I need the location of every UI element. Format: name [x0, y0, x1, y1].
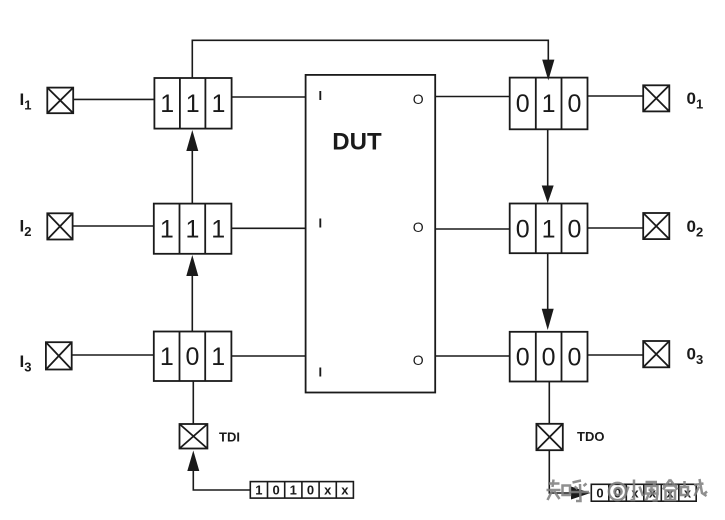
svg-text:1: 1 — [290, 483, 297, 498]
pad I1 — [47, 88, 73, 114]
register cell 111 (row 1 input) — [154, 78, 231, 129]
svg-text:x: x — [324, 483, 332, 498]
svg-text:0: 0 — [516, 344, 530, 372]
pad O2 — [643, 213, 669, 239]
shift arrow register2 to register1 (left column) — [186, 130, 198, 204]
svg-text:1: 1 — [160, 90, 174, 118]
svg-text:0: 0 — [568, 216, 582, 244]
svg-text:1: 1 — [212, 90, 226, 118]
svg-text:TDI: TDI — [219, 430, 240, 445]
svg-text:x: x — [631, 486, 639, 501]
svg-text:O: O — [413, 352, 424, 368]
wm char hu — [570, 481, 589, 502]
wire pad I3 to register — [72, 354, 154, 356]
pad TDO — [536, 424, 562, 450]
pad O1 — [643, 85, 669, 111]
arrow into TDI from scan-in wire — [187, 451, 199, 491]
svg-text:1: 1 — [160, 343, 174, 371]
svg-text:I: I — [319, 216, 323, 231]
pad O3 — [643, 341, 669, 367]
wm char at — [609, 483, 626, 500]
svg-text:1: 1 — [542, 90, 556, 118]
wire pad I2 to register — [73, 225, 154, 227]
register cell 101 (row 3 input) — [154, 332, 232, 382]
wm char xiao — [625, 480, 643, 501]
shift arrow register1 to register2 (right column) — [542, 129, 554, 203]
svg-text:1: 1 — [160, 216, 174, 244]
watermark zhihu (drawn strokes, no CJK font) — [547, 479, 708, 501]
shift arrow register2 to register3 (right column) — [542, 253, 554, 330]
register cell 111 (row 2 input) — [154, 204, 232, 254]
svg-text:0: 0 — [596, 486, 603, 501]
arrowhead into right register 1 top — [542, 60, 554, 81]
wm char zhi — [547, 480, 571, 501]
wire feedback top — [192, 40, 548, 78]
wm char fen — [663, 480, 678, 501]
wire scan-in horizontal — [193, 489, 251, 491]
svg-text:1: 1 — [255, 483, 262, 498]
svg-text:I: I — [319, 88, 323, 103]
wire register3 down to TDI pad — [192, 381, 194, 424]
wire register3 down to TDO pad — [548, 382, 550, 424]
wire pad I1 to register — [73, 98, 154, 100]
pad I2 — [47, 213, 72, 239]
wire DUT O1 to register — [435, 96, 510, 98]
pad I3 — [46, 342, 72, 369]
svg-text:DUT: DUT — [332, 129, 382, 156]
wire DUT O2 to register — [435, 228, 510, 230]
svg-text:1: 1 — [185, 216, 199, 244]
svg-text:1: 1 — [186, 90, 200, 118]
wire register to pad O3 — [588, 354, 644, 356]
svg-text:0: 0 — [516, 90, 530, 118]
svg-text:0: 0 — [568, 90, 582, 118]
svg-text:0: 0 — [542, 344, 556, 372]
wire register to pad O1 — [588, 95, 644, 97]
wm char zhan — [681, 479, 707, 496]
wm char yong — [646, 482, 658, 501]
svg-text:O: O — [413, 91, 424, 107]
svg-text:0: 0 — [185, 343, 199, 371]
svg-text:0: 0 — [272, 483, 279, 498]
wire DUT O3 to register — [435, 355, 510, 357]
arrow into scan-out vector box — [571, 487, 591, 500]
register cell 010 (row 2 output) — [510, 204, 588, 254]
svg-text:O: O — [413, 219, 424, 235]
shift arrow register3 to register2 (left column) — [186, 255, 198, 332]
wire register to DUT I1 — [232, 96, 306, 98]
wire register to DUT I3 — [231, 355, 305, 357]
DUT block — [306, 75, 436, 393]
svg-text:0: 0 — [568, 344, 582, 372]
svg-text:1: 1 — [211, 343, 225, 371]
wire register to pad O2 — [588, 227, 644, 229]
register cell 000 (row 3 output) — [510, 332, 588, 382]
pad TDI — [180, 424, 208, 449]
wire register to DUT I2 — [231, 227, 305, 229]
register cell 010 (row 1 output) — [510, 78, 588, 130]
svg-text:x: x — [341, 483, 349, 498]
svg-text:TDO: TDO — [577, 429, 604, 444]
svg-text:0: 0 — [307, 483, 314, 498]
svg-text:1: 1 — [211, 216, 225, 244]
svg-text:0: 0 — [516, 216, 530, 244]
scan-in vector box 1010xx — [250, 482, 353, 499]
svg-text:1: 1 — [542, 216, 556, 244]
wire TDO down and right (scan-out) — [549, 450, 572, 493]
svg-text:I: I — [319, 365, 323, 380]
scan-out vector box 00xxxx — [591, 484, 696, 501]
